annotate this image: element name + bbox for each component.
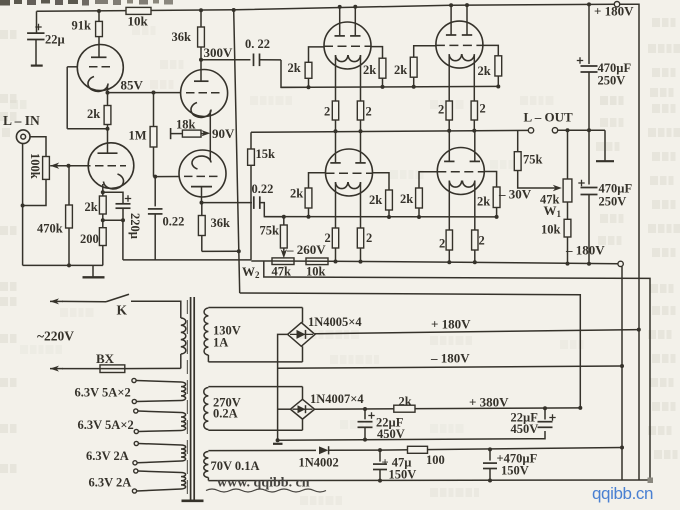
wire: V2a cathode to V2b cathode (209, 111, 211, 161)
heater winding 3 (134, 441, 138, 445)
svg-text:2: 2 (439, 237, 445, 251)
wire: upper output grid rail (281, 86, 499, 87)
svg-text:10k: 10k (128, 14, 149, 29)
svg-text:+ 180V: + 180V (431, 317, 471, 332)
resistor 10k (bias divider) (306, 258, 328, 265)
node 300V (199, 58, 203, 62)
svg-text:6.3V 2A: 6.3V 2A (89, 476, 132, 490)
wire: 75k to W1 wiper (518, 171, 558, 189)
svg-text:2k: 2k (363, 63, 376, 77)
svg-text:– 180V: – 180V (430, 351, 470, 366)
bridge rectifier 1N4005x4 (302, 308, 304, 323)
tube V4 (output) (436, 21, 483, 68)
wire: +380V line (315, 408, 581, 409)
resistor 10k (top rail series) (126, 7, 151, 14)
wires: V3 anodes to rail (339, 7, 341, 36)
svg-text:450V: 450V (511, 422, 539, 436)
svg-text:– 260V: – 260V (286, 242, 326, 257)
svg-text:2k: 2k (477, 195, 490, 209)
svg-text:L – IN: L – IN (3, 113, 40, 128)
svg-text:qqibb.cn: qqibb.cn (592, 484, 653, 503)
resistor 2 (V3 cathode b) (357, 101, 363, 120)
svg-text:2k: 2k (478, 64, 491, 78)
wire: to upper grid rail (281, 60, 309, 88)
resistor 470k (grid leak) (68, 166, 70, 205)
terminals L-OUT (528, 128, 533, 133)
heater winding 2 (134, 409, 138, 413)
wire: 36k-V2a stage decoupling to riser (202, 250, 239, 252)
svg-text:2k: 2k (399, 394, 412, 408)
tube V5 (output) (326, 149, 373, 196)
resistor 36k (V2b plate load) (201, 203, 203, 216)
resistor 2 (V5 cathode a) (332, 228, 338, 248)
capacitor 0.22 (lower drive coupling) (202, 202, 253, 204)
resistor 100 (bias filter) (408, 446, 428, 453)
svg-text:10k: 10k (541, 223, 561, 237)
svg-text:85V: 85V (121, 78, 144, 93)
svg-text:0.22: 0.22 (252, 182, 274, 196)
resistor 15k (V2b load to output rail) (250, 132, 252, 260)
node V2b plate (200, 201, 204, 205)
capacitor 0.22 (upper drive coupling) (201, 59, 250, 61)
svg-text:18k: 18k (176, 118, 196, 132)
capacitor 0.22 (V2b grid decoupling) (153, 175, 157, 179)
resistor 2 (V4 cathode b) (471, 101, 477, 120)
svg-text:0. 22: 0. 22 (245, 37, 270, 51)
resistor 2k (V1b cathode) (101, 190, 105, 194)
svg-text:1A: 1A (213, 336, 228, 350)
svg-text:K: K (117, 303, 128, 318)
wire: +180V PSU line (315, 330, 639, 334)
svg-text:470µF: 470µF (599, 182, 633, 196)
svg-text:– 180V: – 180V (565, 243, 605, 258)
HV winding 70V (204, 452, 209, 478)
resistor 2k (V6 grid b) (484, 172, 496, 188)
svg-text:91k: 91k (72, 19, 92, 33)
resistor 75k (upper feedback divider) (517, 131, 519, 152)
svg-text:2: 2 (438, 103, 444, 117)
svg-text:100k: 100k (28, 153, 42, 179)
wire: pot cold end to ground bus (23, 179, 46, 205)
resistor 2k (V5 grid a) (309, 173, 326, 188)
tube V2b (phase splitter lower, inverted) (179, 150, 226, 197)
svg-text:2k: 2k (400, 192, 413, 206)
switch K (50, 300, 63, 302)
wires: V4 cathodes (448, 55, 450, 101)
svg-text:6.3V 2A: 6.3V 2A (86, 449, 129, 463)
clipped page-caption fragments (0, 0, 173, 6)
resistor 2k (V5 grid b) (373, 173, 390, 190)
resistor 2 (V4 cathode a) (446, 101, 452, 120)
tube V3 (output) (324, 22, 371, 69)
wires: V6 cathodes (448, 181, 450, 230)
resistor 2k (V6 grid a) (419, 172, 437, 188)
svg-text:www. qqibb. cn: www. qqibb. cn (217, 476, 310, 491)
svg-text:250V: 250V (598, 74, 626, 88)
svg-text:+ 180V: + 180V (594, 4, 634, 19)
capacitor 220u (cathode bypass) (103, 192, 123, 203)
resistor 2 (V6 cathode a) (446, 230, 452, 250)
ground symbol (92, 265, 94, 276)
svg-text:0.2A: 0.2A (213, 407, 238, 421)
svg-text:L – OUT: L – OUT (524, 110, 573, 125)
svg-text:10k: 10k (306, 265, 326, 279)
capacitor 470uF/250V (lower half supply) (588, 130, 590, 184)
capacitor 22uF/450V (a) (364, 409, 366, 419)
svg-text:1N4005×4: 1N4005×4 (308, 315, 362, 329)
resistor 2k (380V filter) (394, 405, 415, 412)
heater winding 1 (132, 378, 136, 382)
svg-text:150V: 150V (389, 468, 417, 482)
svg-text:200: 200 (80, 232, 99, 246)
resistor 1M (V2b grid bias) (153, 93, 155, 127)
svg-text:70V 0.1A: 70V 0.1A (211, 459, 260, 473)
capacitor 22u input filter (36, 11, 38, 33)
svg-text:100: 100 (426, 453, 445, 467)
junction dots on top rail (97, 9, 101, 13)
potentiometer W1 47k (567, 130, 569, 179)
svg-text:2k: 2k (85, 200, 98, 214)
svg-text:6.3V 5A×2: 6.3V 5A×2 (78, 418, 134, 432)
tube V2a (phase splitter upper) (181, 70, 228, 117)
svg-text:2k: 2k (87, 107, 100, 121)
svg-text:~220V: ~220V (37, 329, 74, 344)
svg-text:2: 2 (480, 102, 486, 116)
wire: output rail (to L-OUT) (251, 130, 528, 132)
ground (core) (182, 499, 204, 502)
wire: top supply rail (37, 4, 618, 11)
svg-text:36k: 36k (211, 216, 231, 230)
svg-text:2k: 2k (369, 193, 382, 207)
wire: bias supply line (380, 448, 622, 451)
wire: +380V riser (long vertical) (234, 10, 240, 293)
svg-text:1N4002: 1N4002 (299, 456, 339, 470)
svg-text:75k: 75k (260, 224, 280, 238)
wire: PSU common line (278, 431, 545, 440)
svg-text:470k: 470k (37, 222, 63, 236)
svg-text:150V: 150V (501, 464, 529, 478)
wire: -250V bottom line (208, 479, 650, 482)
resistor 2k (V3 grid b) (371, 47, 383, 59)
resistor 2 (V5 cathode b) (357, 228, 363, 248)
wire: lower output grid rail (264, 216, 496, 218)
capacitor 470uF/250V (upper half supply) (588, 4, 590, 64)
svg-text:2k: 2k (288, 61, 301, 75)
resistor 2k (V3 grid a) (309, 47, 325, 62)
svg-text:2: 2 (366, 105, 372, 119)
resistor 10k (lower feedback divider) (567, 202, 569, 219)
wire: +180V terminal to PSU riser (620, 4, 639, 480)
resistor 2 (V3 cathode a) (332, 101, 338, 120)
wire: V1a grid to V1b plate (67, 66, 77, 68)
resistor 75k (bias feed) (282, 215, 286, 219)
svg-text:75k: 75k (523, 153, 543, 167)
svg-text:2k: 2k (394, 63, 407, 77)
wires: V5 cathodes (335, 183, 337, 228)
node 85V (V1a cathode / V2a grid) (108, 92, 182, 94)
wire: +380 feed line (240, 293, 581, 408)
wire: bridge2 left leg (278, 408, 291, 410)
resistor 91k (V1a plate load) (98, 11, 100, 21)
ground stub on output rail (604, 130, 606, 160)
bridge rectifier 1N4007x4 (302, 387, 304, 400)
svg-text:1N4007×4: 1N4007×4 (310, 392, 364, 406)
resistor 2k (V4 grid b) (483, 45, 498, 55)
HV winding 270V (204, 388, 209, 430)
capacitor 47u/150V (379, 450, 381, 462)
svg-text:6.3V 5A×2: 6.3V 5A×2 (75, 386, 131, 400)
resistor 2 (V6 cathode b) (472, 230, 478, 250)
capacitor 22uF/450V (b) (544, 408, 546, 419)
svg-text:2: 2 (324, 105, 330, 119)
wires: V5 anodes to output rail (335, 131, 337, 163)
HV winding 130V (204, 308, 208, 355)
wire: AC ground line (123, 259, 251, 261)
svg-text:2: 2 (325, 231, 331, 245)
resistor 200 (V1b cathode lower) (101, 218, 105, 222)
resistor 2k (V4 grid a) (414, 46, 436, 57)
tube V6 (output) (437, 148, 484, 195)
transformer primary winding (181, 318, 186, 354)
wire: V2b grid (155, 176, 179, 178)
tube V1b (input SRPP lower) (88, 143, 134, 189)
svg-text:250V: 250V (599, 195, 627, 209)
fuse BX (50, 368, 63, 370)
terminal -180V (618, 261, 623, 266)
tube V1a (input SRPP upper) (77, 45, 123, 91)
wire: -180V PSU line (278, 366, 622, 368)
wire: bridge1 minus leg (278, 334, 288, 440)
svg-text:2: 2 (366, 231, 372, 245)
potentiometer W2 47k (272, 258, 294, 265)
heater winding 4 (134, 469, 138, 473)
transformer core (190, 297, 192, 500)
wires: V6 anodes to output rail (448, 131, 450, 162)
resistor 36k (V2a plate load) (200, 10, 202, 27)
resistor 2k (V1a cathode) (104, 106, 111, 125)
svg-text:220µ: 220µ (128, 213, 142, 239)
svg-text:15k: 15k (256, 147, 276, 161)
svg-text:BX: BX (96, 351, 115, 366)
svg-text:0.22: 0.22 (163, 215, 185, 229)
svg-text:2k: 2k (290, 187, 303, 201)
svg-text:+ 380V: + 380V (469, 395, 509, 410)
resistor 18k (cathode tail) + node 90V (170, 128, 172, 139)
wire: -180V terminal riser (621, 267, 623, 481)
wire: jack sleeve down (22, 144, 24, 266)
svg-text:22µ: 22µ (45, 33, 65, 47)
winding 130V 1A (208, 307, 302, 309)
wire: 220u bottom to AC-ground line (122, 220, 124, 260)
terminal +180V (614, 1, 619, 6)
wires: V3 cathodes (335, 56, 337, 101)
winding 70V 0.1A (208, 449, 316, 451)
svg-text:36k: 36k (172, 30, 192, 44)
ground bus (input stage) (23, 264, 103, 266)
wires: V4 anodes to rail (450, 5, 452, 35)
potentiometer 100k (volume) (43, 157, 50, 180)
wire: W2 bottom return (264, 261, 650, 479)
wire: jack tip to volume pot (30, 137, 46, 157)
svg-text:1M: 1M (129, 129, 147, 143)
svg-text:90V: 90V (212, 126, 235, 141)
svg-text:300V: 300V (204, 45, 234, 60)
wire: -180V rail / cathode return (251, 261, 618, 264)
capacitor 470uF/150V (489, 449, 491, 460)
diode 1N4002 (319, 446, 328, 454)
winding 270V 0.2A (208, 386, 302, 388)
svg-text:2: 2 (479, 234, 485, 248)
node & ground (PSU common) (276, 438, 280, 442)
